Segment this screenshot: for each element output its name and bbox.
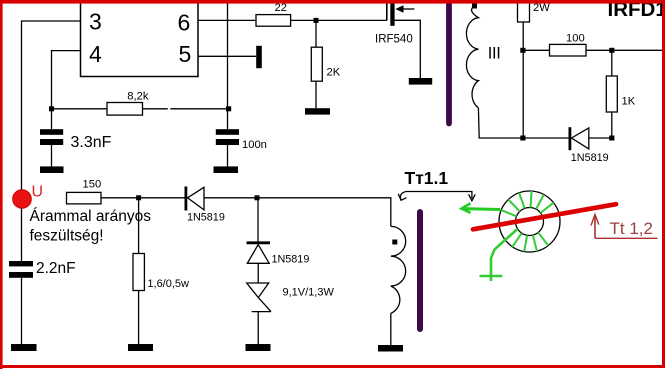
node D junction dot: [520, 136, 525, 141]
resistor R 1K: [606, 76, 617, 112]
svg-text:8,2k: 8,2k: [127, 90, 149, 102]
wire pin6 to resistor 22: [198, 19, 256, 21]
transformer Tt1.1 core bar: [417, 212, 423, 329]
svg-text:150: 150: [83, 179, 102, 191]
transformer Tt1.1 polarity dot: [392, 240, 397, 245]
diode D1 1N5819 (top right): [523, 137, 569, 139]
ground for 100n: [214, 166, 239, 173]
zener D4 9,1V/1,3W: [247, 283, 269, 298]
svg-text:100: 100: [566, 33, 585, 45]
svg-text:1N5819: 1N5819: [187, 211, 225, 223]
svg-text:5: 5: [179, 41, 192, 67]
svg-text:3.3nF: 3.3nF: [71, 134, 112, 151]
svg-text:4: 4: [89, 41, 102, 67]
diode D2 1N5819 (middle): [184, 187, 187, 211]
svg-text:III: III: [488, 45, 501, 63]
transistor Q1 IRF540 gate line: [386, 0, 388, 20]
wire node F down to 1K: [611, 50, 613, 76]
node F junction dot: [609, 48, 614, 53]
ground for Tt1.1 coil: [378, 345, 403, 352]
wire winding III bottom to node D: [478, 108, 522, 138]
resistor R 100: [550, 44, 587, 56]
resistor R 1,6/0,5w: [138, 198, 140, 254]
wire 2W down to node E: [522, 22, 524, 138]
wire pin4 down to node A: [52, 51, 81, 109]
node U red dot: [13, 190, 32, 209]
node I junction dot: [255, 195, 260, 200]
svg-text:feszültség!: feszültség!: [30, 228, 104, 245]
wire 1K down to node G: [611, 112, 613, 138]
svg-text:3: 3: [89, 9, 102, 35]
wire node A to resistor 8,2k: [52, 108, 108, 110]
node C junction dot: [314, 18, 319, 23]
toroid Tt1.2 outer ring: [499, 191, 560, 252]
wire coil to ground: [390, 313, 392, 345]
ground for 2K: [305, 108, 330, 114]
svg-text:1N5819: 1N5819: [272, 253, 310, 265]
capacitor C 100n: [227, 109, 229, 129]
svg-text:IRF540: IRF540: [375, 33, 413, 45]
green direction arrow: [463, 207, 500, 211]
connector bar on pin5: [256, 46, 262, 68]
capacitor C 3.3nF: [51, 109, 53, 129]
red pointer arrow Tt 1,2: [591, 215, 658, 239]
transistor Q1 arrow: [399, 8, 414, 10]
wire 150 to node H: [101, 197, 139, 199]
wire 8,2k to node B: [143, 108, 168, 110]
svg-text:Árammal arányos: Árammal arányos: [30, 208, 152, 225]
svg-text:1N5819: 1N5819: [571, 152, 609, 164]
wire vertical rail from top to node B: [227, 0, 229, 109]
diode D3 1N5819 (vertical): [257, 198, 259, 243]
resistor R 22: [256, 15, 291, 27]
wire 22 to node C: [291, 19, 316, 21]
svg-text:9,1V/1,3W: 9,1V/1,3W: [283, 287, 335, 299]
ground for 1,6/0,5w: [128, 344, 153, 351]
transformer T1 winding III polarity dot: [472, 4, 477, 9]
capacitor C 2.2nF: [9, 261, 33, 266]
red primary wire through toroid: [473, 204, 616, 229]
svg-text:Tт1.1: Tт1.1: [405, 168, 449, 188]
wire node H to diode D2: [139, 197, 185, 199]
wire 100 to node F: [586, 49, 662, 51]
wire node I to coil Tt1.1: [258, 198, 391, 227]
wire node C down to 2K: [315, 20, 317, 47]
node A junction dot: [49, 106, 54, 111]
toroid winding spokes (green): [501, 191, 553, 251]
node E junction dot: [520, 48, 525, 53]
op-amp U1 (IC box, pins 3 4 6 5): [81, 0, 199, 77]
svg-text:2.2nF: 2.2nF: [36, 260, 76, 277]
wire pin3 to left rail: [22, 21, 81, 262]
transformer T1 core bar: [446, 0, 452, 124]
svg-text:1K: 1K: [622, 96, 636, 108]
svg-text:Tt 1,2: Tt 1,2: [610, 219, 653, 238]
green winding lead to ground: [491, 229, 518, 281]
node G junction dot: [609, 136, 614, 141]
transformer Tt1.1 primary coil: [391, 226, 406, 313]
toroid Tt1.2 inner ring: [516, 208, 544, 236]
ground for zener chain: [246, 344, 271, 351]
transformer T1 winding III coil: [466, 6, 478, 108]
svg-text:2W: 2W: [533, 2, 550, 14]
svg-text:6: 6: [178, 10, 191, 36]
resistor R 2W: [518, 0, 530, 22]
transistor Q1 source wire: [395, 20, 421, 78]
ground for IRF540 source: [409, 78, 432, 85]
ground for 3.3nF: [40, 166, 64, 173]
svg-text:100n: 100n: [242, 139, 267, 151]
wire node C to MOSFET gate: [316, 19, 387, 21]
resistor R 150: [67, 192, 102, 204]
resistor R 2K: [311, 47, 322, 81]
resistor R 8,2k: [107, 103, 143, 116]
wire node E to resistor 100: [523, 49, 549, 51]
transistor Q1 IRF540 channel bar: [390, 1, 394, 26]
label Tt1.1 pointer lines: [406, 192, 472, 199]
wire pin5 stub: [198, 55, 256, 57]
node B junction dot: [226, 106, 231, 111]
ground for 2.2nF: [11, 344, 37, 351]
svg-text:1,6/0,5w: 1,6/0,5w: [147, 278, 189, 290]
node H junction dot: [136, 195, 141, 200]
svg-text:U: U: [32, 184, 44, 201]
wire D2 to node I: [204, 197, 258, 199]
svg-text:2K: 2K: [327, 67, 341, 79]
svg-text:22: 22: [275, 2, 287, 14]
